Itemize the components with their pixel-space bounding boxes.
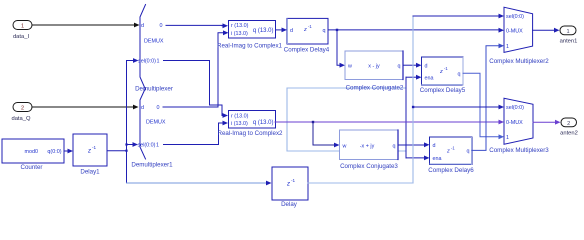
svg-text:q: q: [323, 28, 326, 34]
svg-text:DEMUX: DEMUX: [144, 38, 164, 44]
junction on R2C2 output: [312, 121, 314, 123]
svg-text:Complex Multiplexer3: Complex Multiplexer3: [489, 147, 549, 154]
real-imag to complex2 block: [218, 111, 284, 138]
svg-text:anten2: anten2: [560, 130, 578, 136]
svg-text:z: z: [446, 149, 450, 155]
svg-text:w: w: [342, 143, 347, 149]
svg-text:1: 1: [506, 135, 509, 141]
wire demux out0 to Real-Imag to Complex1 r: [166, 23, 228, 28]
svg-text:data_I: data_I: [13, 34, 30, 40]
svg-text:0: 0: [160, 23, 163, 29]
svg-text:w: w: [347, 63, 352, 69]
wire R2C2 q to mux3 input0 (purple): [275, 120, 504, 125]
svg-text:q(0:0): q(0:0): [47, 149, 61, 155]
svg-text:z: z: [286, 181, 290, 187]
svg-text:Complex Delay6: Complex Delay6: [428, 167, 474, 174]
wire Counter to Delay1: [64, 149, 73, 154]
wire riser to mux3 sel: [413, 105, 504, 110]
svg-text:Delay1: Delay1: [80, 169, 100, 176]
outport anten1: [560, 26, 578, 44]
wire demux1 out1 to Real-Imag to Complex2 i: [164, 121, 229, 145]
svg-text:Demultiplexer1: Demultiplexer1: [131, 161, 173, 168]
svg-text:z: z: [439, 69, 443, 75]
complex delay4 block: [284, 18, 330, 53]
wire demux out1 to Real-Imag to Complex2 r: [164, 61, 229, 118]
svg-text:ena: ena: [425, 75, 434, 81]
svg-text:mod0: mod0: [25, 149, 39, 155]
svg-text:-1: -1: [291, 178, 296, 183]
svg-text:i (13.0): i (13.0): [231, 121, 248, 127]
wire demux1 out0 to Real-Imag to Complex1 i: [163, 30, 229, 107]
svg-text:Complex Delay4: Complex Delay4: [284, 47, 330, 54]
svg-text:d: d: [290, 28, 293, 34]
complex delay5 block: [420, 57, 466, 94]
svg-text:z: z: [303, 27, 307, 33]
junction on delay4 output: [336, 29, 338, 31]
wire CD5 q to mux3 input1: [463, 73, 504, 139]
complex conjugate2 block: [345, 51, 404, 91]
svg-text:q: q: [398, 63, 401, 69]
wire R2C1 q to Complex Delay4 d: [276, 28, 288, 33]
wire sel to Demultiplexer1 sel: [127, 142, 139, 147]
svg-text:anten1: anten1: [560, 38, 578, 44]
real-imag to complex1 block: [217, 21, 283, 50]
wire riser down to Delay: [127, 182, 268, 184]
inport data_Q: [11, 103, 32, 123]
svg-text:q: q: [467, 149, 470, 155]
sel riser vertical: [126, 61, 128, 184]
ena vertical dark: [405, 77, 407, 158]
svg-text:2: 2: [21, 105, 24, 111]
junction at Delay1 output: [125, 150, 127, 152]
outport anten2: [560, 118, 578, 136]
svg-text:Complex Conjugate3: Complex Conjugate3: [340, 163, 398, 170]
svg-text:Counter: Counter: [20, 164, 42, 171]
wire CD6 q to mux2 input1: [472, 43, 504, 150]
junction at mux3 sel branch: [412, 106, 414, 108]
svg-text:-1: -1: [92, 145, 97, 150]
svg-text:Real-Imag to Complex2: Real-Imag to Complex2: [218, 130, 284, 137]
svg-text:Complex Conjugate2: Complex Conjugate2: [346, 84, 404, 91]
delay1 block: [73, 134, 107, 176]
svg-text:Delay: Delay: [281, 201, 298, 208]
wire ena to CD6 ena: [406, 156, 430, 161]
arrowhead into Delay: [266, 181, 272, 186]
svg-text:r (13.0): r (13.0): [231, 23, 249, 29]
wire riser to mux2 sel: [413, 14, 504, 19]
svg-text:i (13.0): i (13.0): [231, 31, 248, 37]
svg-text:d: d: [141, 23, 144, 29]
svg-text:1: 1: [21, 23, 24, 29]
wire data_Q to Demultiplexer1 d: [32, 105, 139, 110]
svg-text:0-MUX: 0-MUX: [506, 28, 523, 34]
inport data_I: [13, 21, 32, 41]
wire Complex Delay4 q to mux2 input0: [328, 28, 504, 33]
complex delay6 block: [428, 137, 474, 174]
wire data_I to Demultiplexer d: [32, 23, 140, 28]
svg-text:0-MUX: 0-MUX: [506, 120, 523, 126]
svg-text:1: 1: [566, 29, 569, 35]
complex conjugate3 block: [340, 130, 399, 170]
svg-text:Complex Multiplexer2: Complex Multiplexer2: [489, 58, 549, 65]
wire sel to Demultiplexer sel: [127, 58, 139, 63]
counter block: [2, 139, 64, 171]
wire mux3 to anten2: [533, 120, 561, 125]
wire branch down to Complex Conjugate2 w: [337, 30, 345, 68]
delay block: [272, 167, 308, 208]
svg-text:d: d: [425, 63, 428, 69]
svg-text:sel(0:0): sel(0:0): [138, 59, 156, 65]
svg-text:q (13.0): q (13.0): [253, 120, 274, 126]
wire branch down to Complex Conjugate3 w: [313, 122, 340, 147]
svg-text:ena: ena: [433, 156, 442, 162]
demultiplexer1 block: [131, 88, 173, 168]
svg-text:q: q: [458, 71, 461, 77]
svg-text:DEMUX: DEMUX: [146, 119, 166, 125]
svg-text:0: 0: [157, 105, 160, 111]
svg-text:d: d: [141, 105, 144, 111]
svg-text:1: 1: [157, 59, 160, 65]
wire Delay q to mux sel riser: [308, 182, 413, 184]
ena net light wire: [287, 88, 406, 151]
svg-text:1: 1: [156, 143, 159, 149]
wire Delay1 to sel riser: [107, 150, 127, 152]
complex multiplexer2 block: [489, 7, 549, 65]
svg-text:x - jy: x - jy: [368, 63, 380, 69]
mux sel riser vertical: [412, 16, 414, 183]
complex multiplexer3 block: [489, 98, 549, 154]
wire mux2 to anten1: [533, 28, 560, 33]
demultiplexer block: [135, 5, 173, 93]
wire ena to CD5 ena: [406, 75, 422, 80]
svg-text:sel(0:0): sel(0:0): [506, 14, 524, 20]
svg-text:Real-Imag to Complex1: Real-Imag to Complex1: [217, 43, 283, 50]
svg-text:z: z: [87, 148, 91, 154]
svg-text:q (13.0): q (13.0): [253, 28, 274, 34]
svg-text:-x + jy: -x + jy: [360, 143, 375, 149]
svg-text:2: 2: [567, 121, 570, 127]
svg-text:sel(0:0): sel(0:0): [506, 105, 524, 111]
svg-text:d: d: [433, 143, 436, 149]
wire CC2 q to Complex Delay5 d: [403, 63, 422, 68]
junction at sel branch: [125, 143, 127, 145]
svg-text:data_Q: data_Q: [11, 116, 31, 122]
svg-text:1: 1: [506, 44, 509, 50]
svg-text:r (13.0): r (13.0): [231, 114, 249, 120]
svg-text:Demultiplexer: Demultiplexer: [135, 85, 173, 92]
svg-text:q: q: [393, 143, 396, 149]
svg-text:Complex Delay5: Complex Delay5: [420, 87, 466, 94]
svg-text:sel(0:0): sel(0:0): [138, 143, 156, 149]
wire CC3 q to CD6 d: [398, 142, 430, 147]
